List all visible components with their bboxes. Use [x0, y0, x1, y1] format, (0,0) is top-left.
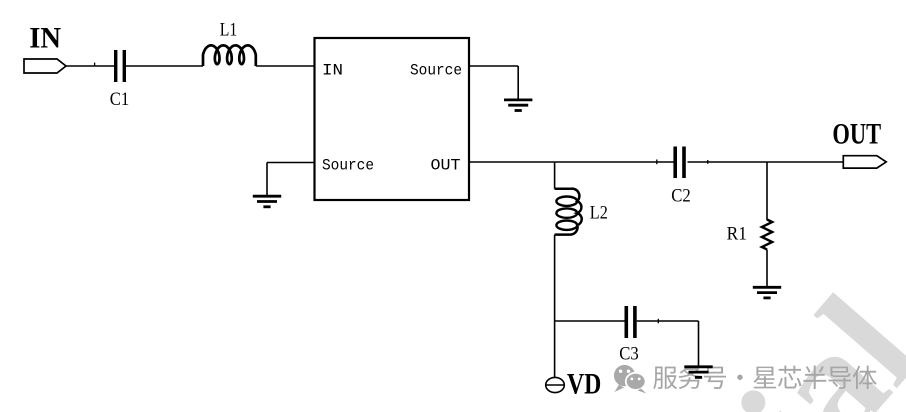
svg-text:IN: IN [29, 21, 61, 54]
wire R1 branch [766, 162, 768, 220]
tick [657, 319, 659, 324]
wire [554, 235, 556, 378]
svg-text:C2: C2 [671, 186, 691, 207]
svg-text:R1: R1 [727, 224, 747, 245]
capacitor C3 [625, 306, 629, 338]
svg-text:C1: C1 [110, 89, 130, 110]
svg-text:Source: Source [410, 62, 462, 80]
inductor L2 [555, 189, 582, 235]
ground G2 [253, 195, 281, 198]
wire [688, 161, 844, 163]
svg-text:C3: C3 [619, 344, 639, 365]
wire L2 branch [554, 162, 556, 189]
svg-text:OUT: OUT [431, 157, 461, 175]
svg-text:Source: Source [322, 157, 374, 175]
capacitor C1 [114, 50, 117, 82]
wire OUT [469, 161, 675, 163]
tick [707, 160, 709, 164]
svg-text:OUT: OUT [832, 117, 881, 150]
ground G1 [504, 99, 532, 102]
wire [66, 65, 114, 67]
svg-text:L2: L2 [590, 203, 608, 224]
inductor L1 [203, 45, 256, 66]
wire [256, 65, 315, 67]
wire [637, 320, 699, 322]
svg-text:IN: IN [322, 62, 343, 80]
watermark text 服务号·星芯半导体 [653, 366, 876, 390]
wire source top [469, 65, 518, 67]
wire C3 branch [555, 320, 625, 322]
port IN [24, 59, 66, 73]
resistor R1 [762, 220, 772, 250]
svg-text:VD: VD [567, 368, 601, 401]
block U1 [315, 38, 470, 200]
ground G3 [753, 286, 781, 289]
power VD [546, 377, 565, 392]
watermark WeChat icon [614, 365, 647, 394]
tick [656, 160, 658, 165]
wire [126, 65, 203, 67]
svg-text:L1: L1 [220, 20, 238, 41]
wire [766, 250, 768, 288]
tick [94, 63, 96, 66]
wire source bottom [267, 162, 315, 164]
capacitor C2 [673, 147, 677, 179]
ground G4 [684, 365, 712, 368]
port OUT [843, 156, 886, 168]
